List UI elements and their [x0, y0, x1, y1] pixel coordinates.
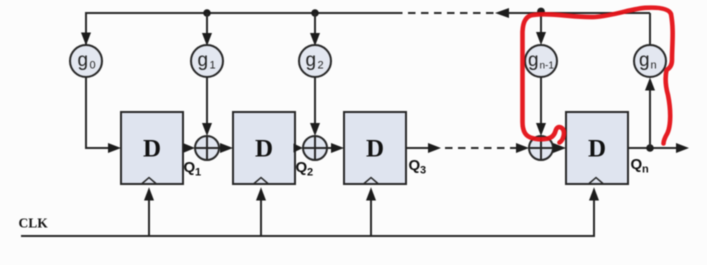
xor gate XOR1 [195, 136, 219, 160]
wire Qn up to gn [645, 78, 655, 149]
wire CLK branch FF2 [256, 187, 266, 236]
node Q3 label [409, 157, 427, 177]
svg-text:Q: Q [296, 159, 308, 176]
svg-text:D: D [366, 136, 384, 163]
svg-text:0: 0 [90, 60, 96, 72]
tap gn-1 [525, 45, 557, 77]
node tap above gn-1 [537, 8, 545, 16]
node Qn label [631, 156, 650, 176]
flip-flop FF2 [233, 112, 295, 184]
svg-text:3: 3 [420, 165, 426, 177]
wire CLK net [21, 200, 594, 236]
svg-text:n: n [642, 164, 649, 176]
svg-text:D: D [588, 136, 606, 163]
svg-text:g: g [306, 50, 317, 71]
wire g0 to FF1 input [86, 77, 121, 154]
wire XOR2 to FF3 [327, 143, 344, 153]
node tap above g1 [203, 9, 211, 17]
svg-text:D: D [143, 136, 161, 163]
tap g1 [191, 45, 223, 77]
xor gate XOR4 [529, 136, 553, 160]
svg-text:g: g [78, 50, 89, 71]
node Q1 label [184, 159, 202, 179]
svg-text:g: g [198, 50, 209, 71]
svg-text:CLK: CLK [19, 216, 49, 231]
xor gate XOR2 [303, 136, 327, 160]
wire feedback top (dashed section) [395, 12, 497, 14]
svg-text:Q: Q [409, 157, 421, 174]
wire FF3 out (solid + arrow) [406, 143, 441, 153]
wire CLK branch FF1 [144, 187, 154, 236]
wire feedback arrow (left-pointing) [495, 8, 650, 18]
svg-text:1: 1 [210, 60, 216, 72]
tap g0 [70, 45, 102, 77]
wire FF1 out to XOR1 [183, 143, 195, 153]
wire FF4 output [628, 143, 689, 153]
svg-text:Q: Q [184, 159, 196, 176]
tap g2 [299, 45, 331, 77]
wire gn to top feedback [649, 13, 651, 46]
wire g1 to XOR1 [202, 77, 212, 136]
wire CLK arrow FF4 [589, 187, 599, 200]
svg-text:Q: Q [631, 156, 643, 173]
svg-text:D: D [255, 136, 273, 163]
wire tap g1 drop [202, 13, 212, 46]
wire dashed to XOR4 [445, 143, 529, 153]
wire arrow into g0 [81, 33, 91, 46]
wire XOR4 to FF4 [553, 143, 566, 153]
wire g2 to XOR2 [310, 77, 320, 136]
wire CLK branch FF3 [366, 187, 376, 236]
tap gn [634, 45, 666, 77]
svg-text:1: 1 [195, 167, 201, 179]
wire tap g2 drop [310, 13, 320, 46]
wire feedback top line (solid left part) [86, 13, 395, 45]
wire FF2 out to XOR2 [294, 144, 304, 153]
wire gn-1 to XOR4 [536, 77, 546, 136]
wire XOR1 to FF2 [219, 143, 233, 153]
node tap above g2 [311, 9, 319, 17]
svg-text:2: 2 [307, 167, 313, 179]
node Qn junction [646, 144, 654, 152]
node Q2 label [296, 159, 314, 179]
annotation red loop [523, 8, 673, 144]
wire tap gn-1 drop [536, 13, 546, 45]
flip-flop FF3 [344, 112, 406, 184]
flip-flop FF4 [566, 112, 628, 184]
svg-text:n: n [651, 60, 657, 72]
flip-flop FF1 [121, 112, 183, 184]
svg-text:n-1: n-1 [540, 61, 555, 72]
svg-text:g: g [528, 50, 539, 71]
svg-text:2: 2 [318, 60, 324, 72]
svg-text:g: g [639, 50, 650, 71]
